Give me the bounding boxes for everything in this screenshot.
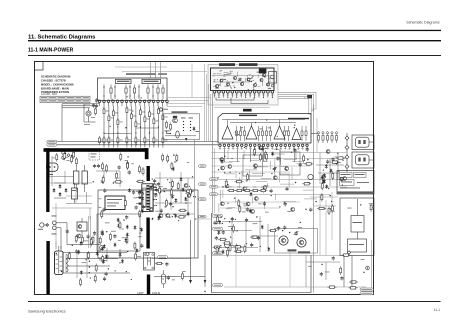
- junction: [169, 217, 170, 218]
- resistor R803a: [102, 162, 104, 171]
- capacitor C963: [165, 262, 168, 266]
- diode D900: [141, 209, 144, 214]
- capacitor C1135: [330, 207, 333, 211]
- junction: [224, 172, 225, 173]
- junction: [321, 264, 322, 265]
- diode D920: [174, 214, 177, 219]
- junction: [315, 201, 316, 202]
- AC wires: [44, 223, 100, 249]
- label R971 value: [82, 261, 86, 264]
- label R984 value: [228, 225, 232, 228]
- resistor R959: [102, 255, 104, 264]
- junction: [284, 202, 285, 203]
- wire below R808: [139, 117, 141, 148]
- resistor R1065: [235, 180, 244, 182]
- label R834 value: [243, 204, 246, 207]
- junction: [139, 228, 140, 229]
- cluster under IC: [0, 0, 1, 1]
- CRT resistor bank: [165, 121, 172, 135]
- capacitor C1010: [295, 231, 298, 235]
- label R1051 value: [287, 210, 291, 213]
- transistor Q908: [184, 184, 188, 188]
- diode D911: [180, 177, 183, 182]
- capacitor C980: [215, 236, 218, 240]
- isolation barrier hook: [145, 148, 149, 159]
- connector pin row: [98, 100, 168, 103]
- wire above vertical box: [214, 106, 270, 108]
- capacitor C835: [299, 163, 302, 167]
- caption OUTPUT AMPLIFIER: [288, 118, 309, 119]
- junction: [118, 220, 119, 221]
- diode D846: [325, 164, 328, 169]
- wire below R806: [130, 121, 132, 148]
- diode D1104: [117, 218, 120, 223]
- capacitor C955: [101, 232, 104, 236]
- diode D918: [174, 198, 177, 203]
- IC801 pin number labels: [213, 94, 273, 97]
- resistor R1021: [349, 281, 358, 283]
- wire below R812: [157, 116, 159, 148]
- label R1024 value: [308, 265, 312, 268]
- transistor Q1077: [243, 187, 247, 191]
- CRT bottom wire: [165, 136, 196, 141]
- label R802 value: [111, 117, 114, 120]
- label R906 value: [159, 185, 163, 188]
- op-amp V4: [292, 129, 301, 140]
- resistor R862: [370, 203, 372, 212]
- capacitor C890: [132, 190, 135, 194]
- CN801 windings: [66, 255, 68, 273]
- schematic border frame: [35, 62, 374, 295]
- bottom-right wires: [306, 255, 340, 287]
- connector P801 box: [98, 78, 168, 101]
- resistor R1057: [238, 199, 240, 208]
- posistor TH801: [86, 111, 91, 116]
- junction: [65, 153, 66, 154]
- capacitor C933: [158, 215, 161, 219]
- label R807 value: [138, 123, 141, 126]
- resistor R978: [227, 248, 229, 257]
- capacitor C897: [142, 205, 145, 209]
- title block text: [41, 75, 74, 97]
- resistor R943: [109, 233, 111, 242]
- wire band IC to vertical stage: [195, 64, 215, 258]
- diode D960: [96, 251, 99, 256]
- diode D847: [323, 179, 326, 184]
- transistor Q929: [187, 194, 191, 198]
- label R805 value: [129, 109, 132, 112]
- resistor R802: [108, 114, 110, 123]
- mid horizontal faint wires: [196, 166, 310, 219]
- resistor R993: [218, 238, 227, 240]
- wire below R811: [153, 126, 155, 148]
- resistor row mid: [227, 187, 268, 192]
- diode D958: [105, 254, 108, 259]
- diode D1113: [140, 228, 143, 233]
- X-capacitor CX801: [93, 164, 96, 168]
- capacitor C1006: [283, 225, 286, 229]
- diode D954: [103, 244, 106, 249]
- capacitor C1064: [270, 189, 273, 193]
- resistor R806: [130, 112, 132, 121]
- junction: [307, 159, 308, 160]
- resistor R935: [172, 180, 174, 189]
- diode D944: [134, 225, 137, 230]
- junction: [218, 169, 219, 170]
- net tag bottom right B: [360, 292, 374, 295]
- resistor R936: [90, 237, 92, 246]
- bead stub: [304, 97, 305, 99]
- capacitor C1054: [246, 207, 249, 211]
- wire long bus C: [218, 179, 347, 181]
- diode D910: [172, 167, 175, 172]
- AC pin labels: [52, 216, 57, 235]
- junction: [142, 192, 143, 193]
- resistor R812: [157, 107, 159, 116]
- svg-text:11-1: 11-1: [434, 308, 440, 312]
- resistor R830: [266, 152, 268, 161]
- resistor R976: [232, 224, 234, 233]
- svg-text:143 APR - MAX: 143 APR - MAX: [41, 93, 58, 96]
- vertical box internals: [222, 120, 307, 142]
- capacitor C1060: [284, 202, 287, 206]
- op-amp V2: [246, 126, 257, 139]
- label R885 value: [98, 206, 101, 209]
- diode D968: [119, 252, 122, 257]
- capacitor C934: [93, 231, 96, 235]
- resistor R813: [162, 113, 164, 122]
- op-amp V1: [222, 126, 233, 139]
- caption (1) MAIN BOARD TO CRT BOARD: [126, 73, 167, 74]
- resistor R1073: [302, 183, 311, 185]
- junction: [172, 206, 173, 207]
- resistor R968: [95, 264, 97, 273]
- resistor R1020: [340, 266, 342, 275]
- diode D1108: [117, 224, 120, 229]
- label R991 value: [251, 235, 254, 238]
- pin number labels under vertical box: [219, 147, 308, 150]
- resistor R804: [117, 118, 119, 127]
- resistor R842: [336, 157, 345, 159]
- resistor R1137: [331, 204, 333, 213]
- net tags on left edge: [213, 214, 223, 287]
- capacitor C1121: [154, 193, 157, 197]
- svg-text:COLD: COLD: [152, 291, 161, 295]
- H box drop wires: [228, 150, 297, 287]
- label R1016 value: [325, 271, 330, 274]
- transistor Q938: [152, 184, 156, 188]
- capacitor C858: [326, 160, 329, 164]
- capacitor C873: [128, 170, 131, 174]
- junction: [127, 156, 128, 157]
- diode D953: [124, 238, 127, 243]
- junction: [152, 219, 153, 220]
- resistor R951: [87, 251, 89, 260]
- resistor R807: [135, 120, 137, 129]
- diode D850: [323, 173, 326, 178]
- op-amp V3: [274, 126, 285, 139]
- diode D972: [77, 250, 80, 255]
- resistor R872: [63, 152, 65, 161]
- capacitor C967: [167, 276, 170, 280]
- diode D994: [261, 225, 264, 230]
- net tag V-OUT: [47, 143, 57, 146]
- diode D1068: [249, 209, 252, 214]
- wires bottom right: [344, 240, 372, 288]
- transistor Q824: [254, 164, 258, 168]
- resistor R1130: [321, 182, 323, 191]
- wire below R807: [135, 129, 137, 148]
- resistor R1139: [328, 207, 330, 216]
- label R806 value: [133, 115, 136, 118]
- transformer T802: [144, 253, 155, 271]
- label R801 value: [106, 110, 109, 113]
- wire below R813: [162, 122, 164, 148]
- capacitor C1110: [140, 244, 143, 248]
- resistor R1134: [321, 193, 323, 202]
- resistor R957: [68, 252, 70, 261]
- junction: [289, 232, 290, 233]
- relay box: [340, 198, 374, 256]
- fuse F801: [61, 149, 66, 160]
- T801 primary pins: [136, 191, 141, 205]
- bridge diodes: [53, 183, 68, 198]
- junction: [363, 272, 364, 273]
- capacitor C999: [257, 236, 260, 240]
- label R964 value: [103, 259, 107, 262]
- resistor R810: [148, 110, 150, 119]
- resistor R921: [178, 209, 187, 211]
- frame corner tab: [35, 62, 44, 71]
- transistor Q807 TO-220: [297, 238, 310, 254]
- resistor R933: [81, 236, 83, 245]
- wire pin drop x135.9: [135, 106, 137, 122]
- label R1055 value: [242, 210, 246, 213]
- diode D844: [335, 160, 338, 165]
- resistor R860: [330, 161, 339, 163]
- label R962 value: [182, 270, 185, 273]
- wire vertical main right: [313, 105, 315, 293]
- resistor R839: [253, 148, 255, 157]
- link diamond D851: [347, 251, 350, 254]
- label R809 value: [147, 118, 150, 121]
- capacitor C893: [138, 191, 141, 195]
- resistor R965: [181, 272, 183, 281]
- resistor R867: [73, 150, 75, 159]
- diode D907: [171, 194, 174, 199]
- junction: [331, 201, 332, 202]
- wire long bus E: [218, 194, 330, 196]
- photo-coupler PC801: [77, 218, 87, 236]
- resistor R938: [176, 154, 178, 163]
- transistor Q803: [77, 234, 81, 238]
- AC socket S801: [47, 163, 59, 175]
- capacitor C803: [95, 104, 98, 108]
- resistor R939: [167, 154, 169, 163]
- net tag on box bottom: [158, 256, 168, 259]
- junction: [229, 172, 230, 173]
- junction: [127, 251, 128, 252]
- label R861 value: [371, 206, 374, 209]
- bottom-left rail wires: [63, 248, 130, 278]
- label R1101 value: [138, 235, 142, 238]
- label R941 value: [111, 230, 116, 233]
- diode D901: [187, 212, 190, 217]
- resistor R802b: [76, 157, 78, 166]
- diode D843: [322, 180, 325, 185]
- svg-text:BOARD NAME : MAIN: BOARD NAME : MAIN: [41, 86, 69, 90]
- resistor R924: [185, 190, 194, 192]
- label R804 value: [120, 121, 123, 124]
- mid-bottom wires: [152, 220, 206, 292]
- transistor Q806 TO-220: [279, 236, 297, 252]
- header rule top: [40, 30, 441, 31]
- transistor Q1053: [220, 202, 224, 206]
- junction: [173, 214, 174, 215]
- resistor R956: [80, 278, 82, 287]
- capacitor C919: [160, 209, 163, 213]
- junction: [123, 219, 124, 220]
- second row resistors: [99, 136, 168, 145]
- junction: [165, 206, 166, 207]
- capacitor C981: [213, 221, 216, 225]
- svg-text:MODEL : CK5040/CK5068: MODEL : CK5040/CK5068: [41, 82, 74, 86]
- resistor R1000: [216, 215, 218, 224]
- capacitor C835: [263, 201, 266, 205]
- label R971 value: [253, 222, 258, 225]
- diode D1066: [250, 192, 253, 197]
- transistor Q808: [225, 242, 231, 248]
- capacitor C904: [153, 179, 156, 183]
- resistor R928: [189, 187, 191, 196]
- capacitor C845: [293, 148, 296, 152]
- deflection region shaded box: [208, 65, 278, 106]
- diode D803: [80, 241, 83, 246]
- capacitor C1115: [155, 188, 158, 192]
- junction: [282, 230, 283, 231]
- diode D948: [114, 243, 117, 248]
- title block revision table: [40, 96, 90, 102]
- transistor Q856: [343, 177, 347, 181]
- transistor Q837: [220, 158, 224, 162]
- junction: [221, 216, 222, 217]
- label R964 value: [172, 278, 175, 281]
- wire pin drop x117.9: [117, 106, 119, 120]
- label R1059 value: [265, 211, 269, 214]
- capacitor C887: [102, 208, 105, 212]
- resistor R805: [126, 106, 128, 115]
- horizontal section box: [212, 213, 312, 293]
- capacitor C901: [135, 205, 138, 209]
- capacitor C828: [276, 156, 279, 160]
- resistor R866: [56, 153, 58, 162]
- cluster primary snubber: [0, 0, 1, 1]
- label R863 value: [347, 207, 352, 210]
- junction: [305, 209, 306, 210]
- capacitor C938: [66, 229, 69, 233]
- isolation barrier segment 2: [147, 166, 150, 181]
- AC pin lower: [52, 226, 56, 230]
- label R825 value: [254, 167, 257, 170]
- junction: [185, 202, 186, 203]
- svg-text:HOT: HOT: [137, 291, 144, 295]
- AC inlet plug: [40, 223, 44, 227]
- wire bus to left: [62, 104, 100, 142]
- junction: [172, 182, 173, 183]
- dashed option box: [89, 152, 100, 161]
- wire vertical x317: [316, 118, 318, 153]
- resistor R808: [139, 108, 141, 117]
- resistor R997: [236, 244, 238, 253]
- wires frame-top to connector: [115, 62, 207, 79]
- primary area mesh 2: [50, 183, 92, 241]
- resistor R926: [159, 186, 161, 195]
- wire pin drop x162.9: [162, 106, 164, 115]
- right cluster mesh wires: [316, 153, 344, 187]
- diode D852: [325, 184, 328, 189]
- capacitor C802: [95, 98, 98, 102]
- wire pin drop x158.4: [157, 106, 159, 109]
- label R932 value: [84, 239, 89, 242]
- label R946 value: [118, 239, 121, 242]
- label R810 value: [151, 113, 154, 116]
- net bar 26P: [243, 109, 252, 112]
- connector CN801: [55, 251, 64, 275]
- capacitor C1131: [309, 208, 312, 212]
- transistor Q849: [326, 150, 330, 154]
- resistor R1022: [342, 254, 351, 256]
- diode D1102: [126, 233, 129, 238]
- wire below R809: [144, 124, 146, 148]
- AC pin upper: [52, 221, 56, 225]
- vertical box pin stubs: [220, 147, 307, 163]
- capacitor C201: [176, 131, 180, 138]
- transistor Q201: [173, 116, 178, 123]
- line filter coil LF801b: [82, 165, 87, 192]
- junction: [89, 266, 90, 267]
- label R879 value: [131, 162, 134, 165]
- junction: [152, 218, 153, 219]
- wire pin drop x144.9: [144, 106, 146, 117]
- junction: [89, 272, 90, 273]
- resistor R898: [124, 199, 126, 208]
- resistor R972: [135, 252, 137, 261]
- resistor R940: [171, 162, 173, 171]
- resistor R886: [101, 210, 103, 219]
- wire long bus D: [218, 186, 347, 188]
- wire long bus A: [212, 152, 347, 154]
- primary mesh wires: [48, 156, 120, 204]
- resistor R937: [166, 199, 168, 208]
- caption bar DEFLECTION: [219, 63, 235, 66]
- IC803 box: [337, 171, 374, 195]
- label R875 value: [115, 177, 119, 180]
- resistor R931: [92, 236, 94, 245]
- caption VERTICAL: [239, 115, 257, 117]
- wire left col: [89, 216, 91, 248]
- ferrite bead FB801: [307, 95, 312, 98]
- label R1071 value: [243, 202, 247, 205]
- AC inlet link: [46, 224, 49, 227]
- resistor R1027: [349, 287, 358, 289]
- isolation barrier horizontal: [44, 148, 149, 152]
- wire pin drop x126.9: [126, 106, 128, 108]
- capacitor C1019: [332, 256, 335, 260]
- svg-text:Samsung Electronics: Samsung Electronics: [28, 309, 66, 314]
- transistor Q1075: [263, 186, 267, 190]
- connector P802 block: [352, 135, 374, 150]
- isolation barrier left upper: [46, 148, 49, 212]
